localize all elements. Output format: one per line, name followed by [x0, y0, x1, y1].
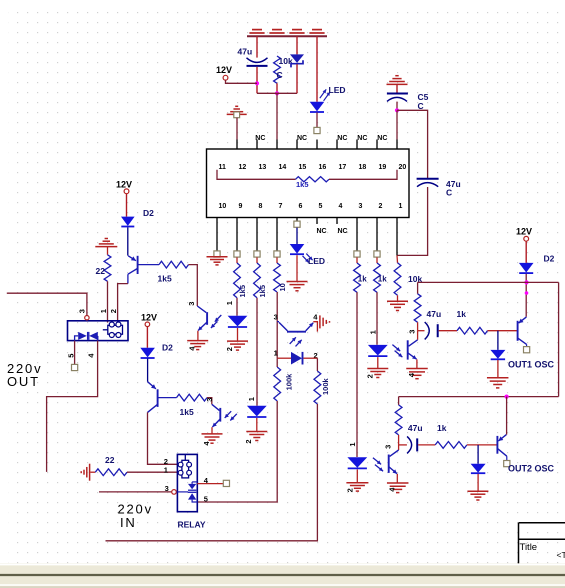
relay K1 pin5/4 labels [67, 353, 96, 358]
ground (pin1 10k) [387, 301, 408, 310]
diode (OUT2 base) [471, 445, 486, 473]
label 220v OUT [7, 361, 42, 389]
wire (long bottom run) [106, 404, 318, 541]
wire (pin14 feed) [276, 93, 278, 139]
svg-text:1: 1 [368, 330, 377, 334]
ground (U4 pin4) [406, 369, 428, 379]
ground (LED p8) [244, 432, 267, 444]
svg-text:100k: 100k [321, 377, 330, 395]
optocoupler U1 phototransistor (ch1) [187, 302, 221, 331]
wire [398, 435, 400, 445]
capacitor C5 [387, 92, 429, 111]
svg-text:22: 22 [96, 266, 106, 276]
terminal square [354, 251, 360, 257]
label NC (pin4) [338, 228, 348, 235]
terminal square (pin6) [294, 221, 300, 227]
svg-text:OUT: OUT [7, 374, 40, 389]
ground (above 22 ch1) [95, 239, 117, 247]
label NC (top pin) [255, 135, 265, 142]
svg-text:NC: NC [297, 135, 307, 142]
wire [488, 330, 518, 332]
capacitor 47u (OUT1) [418, 309, 457, 339]
resistor 22 (ch1) [96, 255, 111, 281]
svg-text:RELAY: RELAY [178, 520, 206, 530]
IC pin wire (bottom) [216, 218, 218, 251]
svg-text:3: 3 [77, 309, 86, 313]
wire [416, 359, 418, 368]
IC pin wire (pin6) [296, 218, 298, 222]
IC pin stub (top) [236, 140, 238, 150]
label 220v IN [118, 502, 153, 531]
LED (top, pin16) [310, 85, 346, 112]
wire [276, 358, 278, 367]
terminal square (pin10) [214, 251, 220, 257]
svg-text:Title: Title [520, 542, 538, 553]
transistor Q4 (OUT2 PNP) [497, 435, 506, 457]
svg-text:2: 2 [379, 203, 383, 210]
label 1 (LED p9) [225, 301, 234, 305]
svg-text:1k: 1k [437, 423, 447, 433]
svg-text:2: 2 [346, 488, 355, 492]
svg-text:NC: NC [317, 228, 327, 235]
wire [396, 84, 398, 92]
svg-text:12V: 12V [116, 179, 132, 189]
pin3 terminal circle (K2) [172, 490, 177, 495]
IC pin wire (pin1) [396, 218, 398, 256]
svg-text:C: C [446, 187, 452, 197]
resistor 1k5 (Q2 base) [177, 394, 208, 417]
wire [398, 397, 400, 405]
relay K1 contacts [75, 332, 98, 341]
svg-text:NC: NC [337, 135, 347, 142]
IR LED (pin9) [228, 316, 248, 327]
svg-text:6: 6 [299, 203, 303, 210]
optocoupler U5 phototransistor (OUT2) [373, 445, 399, 474]
diode D2 (OUT1) [519, 253, 555, 273]
zener diode (top) [290, 54, 304, 67]
svg-text:22: 22 [105, 455, 115, 465]
IC pin stub (top) [396, 140, 398, 150]
resistor 22 (220v IN) [95, 455, 127, 476]
wire [506, 397, 508, 435]
junction dot [255, 81, 259, 85]
svg-text:12V: 12V [516, 227, 532, 237]
label NC (top pin) [337, 135, 347, 142]
wire [525, 274, 527, 317]
wire [376, 257, 378, 263]
wire (K1 pin5) [74, 341, 76, 365]
wire [256, 298, 258, 406]
terminal square [374, 251, 380, 257]
wire [256, 36, 258, 57]
terminal square [234, 251, 240, 257]
resistor 10k C (top) [274, 56, 293, 84]
label OUT1 OSC [508, 360, 555, 370]
svg-text:3: 3 [165, 484, 169, 493]
power bus (top) [247, 35, 327, 37]
ground (U5 pin4) [387, 483, 409, 493]
resistor 1k5 (pin8) [254, 263, 267, 298]
terminal square [274, 251, 280, 257]
svg-text:3: 3 [408, 330, 417, 334]
svg-text:NC: NC [255, 135, 265, 142]
transistor Q1 (PNP, ch1) [128, 256, 159, 274]
svg-text:NC: NC [338, 228, 348, 235]
svg-text:12: 12 [239, 164, 247, 171]
IC pin stub (top) [296, 140, 298, 150]
wire [226, 80, 258, 83]
IC pin stub (pin4) [336, 218, 338, 225]
wire (220v OUT) [7, 293, 87, 315]
svg-text:LED: LED [329, 85, 346, 95]
label NC (top pin) [357, 135, 367, 142]
pin3 terminal circle (K1) [85, 316, 89, 320]
relay K1 pin labels [77, 309, 118, 313]
svg-text:12V: 12V [216, 65, 232, 75]
IC pin stub (top) [376, 140, 378, 150]
wire [417, 282, 419, 293]
svg-text:<T: <T [557, 550, 565, 560]
IC pin stub (pin5) [316, 218, 318, 225]
wire [211, 427, 213, 433]
IC pin stub (top) [256, 140, 258, 150]
title block [519, 523, 565, 564]
resistor 100k (right) [314, 371, 330, 404]
wire [107, 281, 109, 322]
svg-text:3: 3 [187, 302, 196, 306]
power port 12V (top left) [216, 65, 232, 80]
svg-text:1k: 1k [378, 275, 387, 284]
wire [276, 257, 278, 263]
terminal square (K2 pin4) [223, 480, 229, 486]
ground (U3 pin4, rotated) [320, 315, 330, 328]
wire [256, 418, 258, 431]
wire [526, 344, 528, 346]
wire [107, 247, 109, 255]
svg-text:16: 16 [319, 164, 327, 171]
ground symbol (C5) [387, 76, 408, 85]
ground (pin12) [227, 106, 247, 114]
wire [467, 444, 497, 446]
label 1 (OUT2 LED) [348, 442, 357, 446]
svg-text:5: 5 [67, 354, 76, 358]
svg-text:D2: D2 [544, 253, 555, 263]
svg-text:20: 20 [399, 164, 407, 171]
resistor 1k (pin2) [374, 263, 388, 292]
LED (pin6) [290, 244, 325, 266]
resistor 10k (OUT1) [414, 294, 421, 323]
wire [396, 102, 398, 111]
IR LED (pin8) [247, 406, 267, 417]
wire [237, 328, 239, 341]
IC U1 body [207, 149, 410, 218]
svg-text:1k5: 1k5 [296, 180, 309, 189]
transistor Q3 (OUT1 PNP) [518, 317, 527, 345]
capacitor 47u C (right of IC) [417, 179, 461, 198]
svg-text:NC: NC [357, 135, 367, 142]
svg-text:19: 19 [379, 164, 387, 171]
svg-text:13: 13 [259, 164, 267, 171]
terminal square (Q3 collector) [524, 347, 530, 353]
label 1 (OUT1 LED) [368, 330, 377, 334]
junction dot [524, 280, 528, 284]
svg-text:7: 7 [279, 203, 283, 210]
resistor 100k (left) [274, 367, 294, 401]
svg-text:1: 1 [225, 301, 234, 305]
resistor 1k5 (pin9) [234, 263, 247, 298]
wire [207, 398, 212, 405]
svg-text:1: 1 [399, 203, 403, 210]
IC pin stub (top) [356, 140, 358, 150]
svg-text:1: 1 [247, 397, 256, 401]
svg-text:OUT1 OSC: OUT1 OSC [508, 360, 555, 370]
svg-text:18: 18 [359, 164, 367, 171]
wire [256, 257, 258, 263]
relay K2 coil [178, 454, 191, 478]
svg-text:47u: 47u [408, 423, 423, 433]
wire [316, 36, 318, 102]
diode (OUT1 base) [490, 331, 505, 360]
svg-text:1: 1 [348, 442, 357, 446]
IC pin wire (bottom) [256, 218, 258, 251]
wire (K2 pin2) [148, 412, 178, 464]
IC pin numbers top row 11-20 [219, 164, 407, 171]
wire (inside IC, pin11 to 1k5) [217, 170, 296, 180]
wire [396, 255, 399, 262]
svg-text:3: 3 [274, 313, 278, 322]
wire (OUT1 rail) [418, 281, 559, 283]
svg-text:15: 15 [299, 164, 307, 171]
resistor 10k (pin1) [394, 263, 422, 296]
junction dot [505, 395, 509, 399]
wire [256, 67, 258, 93]
svg-text:1k5: 1k5 [158, 273, 172, 283]
svg-text:2: 2 [365, 374, 374, 378]
IC pin wire (bottom) [236, 218, 238, 251]
ground (OUT1 LED) [365, 369, 388, 379]
svg-text:3: 3 [205, 398, 214, 402]
ground (U2 pin4) [202, 434, 223, 446]
junction dot [525, 291, 529, 295]
wire [276, 83, 278, 93]
wire (1k5 to pin20) [329, 170, 397, 180]
wire (pin7 column) [276, 292, 278, 358]
label NC (top pin) [377, 135, 387, 142]
terminal square (pin12) [234, 112, 240, 118]
svg-text:LED: LED [308, 256, 325, 266]
svg-text:10: 10 [278, 283, 287, 291]
relay K2 body [177, 454, 197, 511]
resistor 1k (OUT1) [457, 309, 488, 334]
wire [396, 474, 398, 483]
wire [397, 110, 428, 178]
svg-text:2: 2 [109, 309, 118, 313]
svg-text:OUT2 OSC: OUT2 OSC [508, 463, 555, 473]
svg-text:1: 1 [274, 348, 278, 357]
svg-text:100k: 100k [284, 373, 293, 391]
junction dot [275, 91, 279, 95]
svg-text:3: 3 [384, 445, 393, 449]
wire [236, 298, 238, 316]
wire [296, 255, 298, 281]
wire [316, 358, 318, 371]
wire [257, 92, 297, 94]
svg-text:10: 10 [219, 203, 227, 210]
optocoupler U4 phototransistor (OUT1) [392, 330, 417, 360]
diode D2 (ch2) [140, 342, 173, 358]
optocoupler U3 phototransistor (rotated) [274, 313, 319, 347]
wire [477, 474, 479, 491]
wire [417, 322, 419, 330]
ground (OUT2 diode) [467, 491, 488, 500]
svg-text:4: 4 [339, 203, 343, 210]
ground symbol G1 (top bus) [249, 30, 264, 33]
label OUT2 OSC [508, 463, 555, 473]
wire (K2 pin3) [99, 491, 172, 493]
label NC (pin5) [317, 228, 327, 235]
svg-text:47u: 47u [427, 309, 442, 319]
ground symbol G3 (top bus) [289, 30, 304, 33]
resistor 1k5 (inside IC) [296, 177, 330, 190]
wire [189, 265, 198, 306]
svg-text:1k5: 1k5 [258, 285, 267, 298]
svg-text:5: 5 [204, 495, 208, 504]
resistor 10k (OUT2) [395, 405, 402, 435]
power port 12V (ch2) [141, 312, 157, 326]
capacitor 47u (top left) [238, 46, 268, 66]
wire [236, 257, 238, 263]
svg-text:C: C [277, 70, 283, 80]
ground (U1 pin4) [187, 341, 208, 351]
ground (OUT2 LED) [346, 483, 369, 493]
wire [377, 357, 379, 368]
svg-text:1k5: 1k5 [180, 407, 194, 417]
terminal square [254, 251, 260, 257]
wire [397, 187, 427, 255]
wire [127, 274, 129, 283]
diode (horizontal) [274, 348, 318, 364]
svg-text:5: 5 [319, 203, 323, 210]
ground (LED p9) [225, 341, 248, 351]
ground (pin10) [207, 257, 228, 265]
svg-text:C: C [418, 101, 424, 111]
terminal square (Q4 collector) [504, 461, 510, 467]
wire [525, 241, 527, 263]
svg-text:47u: 47u [238, 46, 253, 56]
svg-text:NC: NC [377, 135, 387, 142]
resistor 1k (pin3) [354, 263, 368, 292]
wire [356, 257, 358, 263]
wire (right rail) [558, 282, 560, 396]
wire [197, 331, 199, 341]
IC pin numbers bottom row 10-1 [219, 203, 403, 210]
wire [376, 292, 378, 345]
capacitor 47u (OUT2) [399, 423, 436, 453]
relay K2 pin labels [164, 457, 209, 504]
IC pin stub (top) [336, 140, 338, 150]
wire [127, 471, 177, 473]
svg-text:12V: 12V [141, 312, 157, 322]
wire (K2 pin4) [197, 483, 223, 485]
wire (to K2 pin5) [197, 401, 277, 502]
label NC (top pin) [297, 135, 307, 142]
svg-text:14: 14 [279, 164, 287, 171]
svg-text:9: 9 [239, 203, 243, 210]
wire [356, 469, 358, 482]
junction dot [395, 108, 399, 112]
wire [296, 228, 298, 244]
wire [256, 405, 258, 407]
wire [506, 456, 508, 460]
resistor 1k5 (Q1 base) [158, 261, 189, 283]
power port 12V (OUT1) [516, 227, 532, 242]
svg-text:IN: IN [120, 515, 137, 530]
IC pin wire (bottom) [276, 218, 278, 251]
wire (pin20 stub) [396, 110, 398, 139]
wire (OUT2 rail) [399, 396, 559, 398]
wire [497, 360, 499, 377]
wire [316, 113, 318, 128]
wire [356, 292, 358, 457]
svg-text:2: 2 [225, 347, 234, 351]
svg-text:2: 2 [244, 439, 253, 443]
svg-text:1k5: 1k5 [238, 285, 247, 298]
resistor 10 (pin7) [274, 263, 287, 292]
IR LED (OUT2) [347, 457, 367, 468]
wire [296, 64, 298, 93]
wire [397, 295, 399, 301]
wire [118, 284, 128, 323]
svg-text:17: 17 [339, 164, 347, 171]
svg-text:1: 1 [164, 465, 168, 474]
wire [146, 327, 148, 348]
relay K2 contacts [177, 482, 197, 502]
IR LED (OUT1) [368, 345, 388, 356]
svg-text:D2: D2 [162, 342, 173, 352]
relay K1 body [68, 321, 129, 341]
IC pin stub (top) [316, 140, 318, 150]
svg-text:1: 1 [99, 309, 108, 313]
wire [236, 118, 238, 140]
power port 12V (left ch1) [116, 179, 132, 193]
ground symbol G4 (top bus) [309, 30, 324, 33]
transistor Q2 (PNP, ch2) [148, 382, 177, 413]
IC pin stub (top) [276, 140, 278, 150]
wire [147, 359, 149, 382]
ground symbol G2 (top bus) [269, 30, 284, 33]
wire (K1 pin4) [47, 341, 98, 472]
ground (pin6 LED) [287, 282, 308, 291]
IC pin wire (bottom) [356, 218, 358, 251]
svg-text:1k: 1k [457, 309, 467, 319]
svg-text:8: 8 [259, 203, 263, 210]
IC pin wire (bottom) [376, 218, 378, 251]
diode D2 (ch1) [121, 208, 154, 227]
optocoupler U2 phototransistor [205, 398, 237, 427]
wire [127, 227, 129, 255]
ground (rotated, 220v IN) [81, 464, 95, 481]
label RELAY [178, 520, 206, 530]
label 1 (LED p8) [247, 397, 256, 401]
ground (OUT1 diode) [487, 378, 509, 388]
svg-text:1k: 1k [358, 275, 367, 284]
svg-text:11: 11 [219, 164, 227, 171]
terminal square (pin16) [314, 127, 320, 133]
resistor 1k (OUT2) [435, 423, 467, 448]
svg-text:D2: D2 [143, 208, 154, 218]
wire [126, 194, 128, 217]
svg-text:3: 3 [359, 203, 363, 210]
